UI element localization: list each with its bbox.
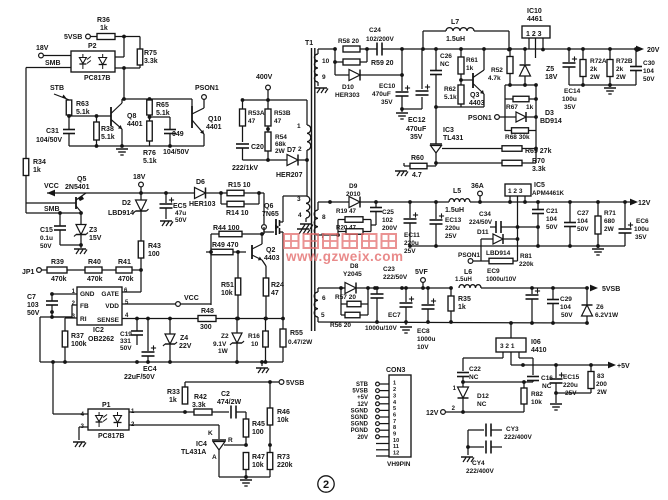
svg-text:R76: R76: [143, 150, 156, 157]
svg-text:4401: 4401: [206, 124, 222, 131]
svg-text:5VSB: 5VSB: [602, 286, 620, 293]
svg-text:R53A: R53A: [248, 110, 265, 117]
svg-text:10k: 10k: [277, 417, 289, 424]
svg-text:104/50V: 104/50V: [36, 137, 62, 144]
svg-text:EC7: EC7: [388, 312, 401, 319]
svg-text:NC: NC: [469, 374, 479, 381]
svg-text:D3: D3: [545, 110, 554, 117]
svg-text:R41: R41: [118, 259, 131, 266]
svg-text:200: 200: [596, 381, 607, 388]
svg-text:Z2: Z2: [221, 333, 229, 340]
svg-text:CON3: CON3: [386, 367, 406, 374]
svg-text:100: 100: [148, 251, 160, 258]
svg-text:NC: NC: [477, 401, 487, 408]
svg-text:0.47/2W: 0.47/2W: [288, 339, 313, 346]
svg-text:D6: D6: [196, 179, 205, 186]
svg-text:D11: D11: [477, 229, 489, 236]
svg-text:2: 2: [393, 387, 396, 393]
svg-text:C27: C27: [577, 210, 589, 217]
svg-text:SGND: SGND: [351, 422, 369, 428]
svg-text:224/50V: 224/50V: [469, 219, 493, 226]
svg-text:3.3k: 3.3k: [144, 58, 158, 65]
svg-text:NC: NC: [542, 383, 552, 390]
svg-text:D12: D12: [477, 393, 489, 400]
svg-text:L5: L5: [453, 188, 461, 195]
svg-text:104: 104: [560, 304, 571, 311]
svg-text:15V: 15V: [89, 235, 102, 242]
svg-text:C34: C34: [479, 211, 491, 218]
svg-text:2N5401: 2N5401: [65, 184, 90, 191]
svg-text:470uF: 470uF: [372, 91, 391, 98]
svg-text:8: 8: [393, 425, 396, 431]
svg-text:EC13: EC13: [445, 217, 462, 224]
svg-text:4401: 4401: [127, 121, 143, 128]
svg-text:EC4: EC4: [143, 366, 157, 373]
svg-text:SGND: SGND: [351, 415, 369, 421]
svg-text:GND: GND: [80, 291, 95, 298]
svg-text:R48: R48: [201, 308, 214, 315]
svg-text:R43: R43: [148, 243, 161, 250]
svg-text:R38: R38: [101, 126, 114, 133]
svg-text:+5V: +5V: [357, 395, 368, 401]
svg-text:R36: R36: [97, 17, 110, 24]
svg-text:EC15: EC15: [563, 374, 580, 381]
svg-text:I06: I06: [531, 339, 541, 346]
svg-text:20V: 20V: [357, 435, 368, 441]
svg-text:D9: D9: [349, 183, 358, 190]
svg-text:2W: 2W: [275, 148, 286, 155]
svg-text:5.1k: 5.1k: [156, 110, 170, 117]
svg-text:1.5uH: 1.5uH: [445, 207, 464, 214]
svg-text:1.5uH: 1.5uH: [455, 276, 472, 283]
svg-text:Z3: Z3: [89, 227, 97, 234]
svg-text:C20: C20: [251, 144, 264, 151]
svg-text:IC5: IC5: [534, 182, 545, 189]
svg-text:331: 331: [120, 338, 131, 345]
svg-text:222/400V: 222/400V: [504, 434, 532, 441]
svg-text:10k: 10k: [252, 462, 264, 469]
svg-text:SENSE: SENSE: [97, 317, 120, 324]
svg-text:R68 30k: R68 30k: [505, 134, 530, 141]
svg-text:EC10: EC10: [379, 83, 396, 90]
svg-text:TL431: TL431: [443, 135, 463, 142]
svg-text:R71: R71: [604, 210, 616, 217]
svg-text:R54: R54: [275, 134, 287, 141]
svg-text:50V: 50V: [643, 76, 655, 83]
svg-text:C21: C21: [546, 208, 558, 215]
svg-text:R67: R67: [506, 104, 518, 111]
svg-text:5VSB: 5VSB: [352, 389, 368, 395]
svg-text:P2: P2: [88, 43, 97, 50]
svg-text:PGND: PGND: [351, 428, 369, 434]
svg-text:10k: 10k: [531, 399, 542, 406]
svg-text:R24: R24: [271, 282, 284, 289]
svg-text:104: 104: [577, 218, 588, 225]
svg-text:R19 47: R19 47: [336, 208, 357, 215]
svg-text:C23: C23: [383, 266, 395, 273]
svg-text:D10: D10: [342, 84, 354, 91]
svg-text:R52: R52: [491, 67, 503, 74]
svg-text:D2: D2: [122, 200, 131, 207]
svg-text:R53B: R53B: [274, 110, 291, 117]
svg-text:4.7k: 4.7k: [488, 75, 501, 82]
svg-text:Z6: Z6: [596, 304, 604, 311]
svg-text:220u: 220u: [563, 382, 578, 389]
svg-text:18V: 18V: [545, 74, 558, 81]
svg-text:R56 20: R56 20: [330, 322, 351, 329]
svg-text:1W: 1W: [218, 348, 229, 355]
svg-text:HER303: HER303: [335, 92, 360, 99]
svg-text:R14 10: R14 10: [226, 210, 249, 217]
svg-text:C25: C25: [382, 209, 394, 216]
svg-text:6: 6: [393, 412, 396, 418]
svg-text:100k: 100k: [71, 341, 87, 348]
svg-text:1: 1: [393, 381, 396, 387]
svg-text:K: K: [208, 430, 213, 437]
svg-text:R47: R47: [252, 454, 265, 461]
svg-text:OB2262: OB2262: [88, 336, 114, 343]
svg-text:5VSB: 5VSB: [286, 380, 304, 387]
svg-text:35V: 35V: [564, 104, 576, 111]
svg-text:1k: 1k: [526, 104, 534, 111]
svg-text:470k: 470k: [87, 276, 103, 283]
svg-text:300: 300: [200, 324, 212, 331]
svg-text:R72A: R72A: [590, 58, 607, 65]
svg-text:VCC: VCC: [44, 183, 59, 190]
svg-text:2W: 2W: [590, 74, 601, 81]
svg-text:25V: 25V: [445, 233, 457, 240]
svg-text:4461: 4461: [527, 16, 543, 23]
svg-text:4403: 4403: [264, 255, 280, 262]
svg-text:Q6: Q6: [264, 203, 273, 210]
svg-text:103: 103: [27, 302, 39, 309]
svg-text:1k: 1k: [33, 167, 41, 174]
svg-text:104: 104: [546, 216, 557, 223]
svg-text:3: 3: [297, 196, 301, 203]
svg-text:C7: C7: [27, 294, 36, 301]
svg-text:9: 9: [322, 74, 326, 81]
svg-text:VH9PIN: VH9PIN: [387, 461, 411, 468]
svg-text:36A: 36A: [471, 183, 484, 190]
svg-text:EC12: EC12: [408, 117, 426, 124]
svg-text:R46: R46: [277, 409, 290, 416]
svg-text:1k: 1k: [458, 304, 466, 311]
svg-text:222/1kV: 222/1kV: [232, 165, 258, 172]
svg-text:47u: 47u: [175, 210, 186, 217]
svg-text:C29: C29: [560, 296, 572, 303]
svg-text:2W: 2W: [604, 226, 615, 233]
svg-text:R61: R61: [466, 57, 478, 64]
svg-text:1k: 1k: [466, 65, 474, 72]
svg-text:11: 11: [393, 444, 399, 450]
svg-text:4.7: 4.7: [412, 172, 422, 179]
svg-text:Z4: Z4: [180, 335, 188, 342]
svg-text:EC6: EC6: [636, 218, 649, 225]
svg-text:C2: C2: [221, 391, 230, 398]
svg-text:7N65: 7N65: [262, 211, 279, 218]
svg-text:9: 9: [393, 432, 396, 438]
svg-text:680: 680: [604, 218, 615, 225]
svg-text:R45: R45: [252, 421, 265, 428]
svg-text:PSON1: PSON1: [195, 85, 219, 92]
svg-text:Z5: Z5: [546, 66, 554, 73]
svg-text:2W: 2W: [616, 74, 627, 81]
svg-text:R81: R81: [520, 253, 532, 260]
svg-text:35V: 35V: [381, 99, 393, 106]
svg-text:TL431A: TL431A: [181, 449, 206, 456]
svg-text:220k: 220k: [519, 261, 534, 268]
svg-text:1 2 3: 1 2 3: [508, 188, 523, 195]
svg-text:12: 12: [393, 451, 399, 457]
svg-text:STB: STB: [356, 382, 369, 388]
svg-text:6: 6: [322, 295, 326, 302]
svg-text:www.gzweix.com: www.gzweix.com: [285, 249, 404, 264]
svg-text:100: 100: [252, 429, 264, 436]
svg-text:1k: 1k: [169, 397, 177, 404]
svg-text:R63: R63: [76, 101, 89, 108]
svg-text:3.3k: 3.3k: [192, 402, 206, 409]
svg-text:C31: C31: [46, 128, 59, 135]
svg-text:68k: 68k: [275, 141, 286, 148]
svg-text:R39: R39: [51, 259, 64, 266]
svg-text:83: 83: [597, 373, 605, 380]
svg-text:5: 5: [321, 312, 325, 319]
svg-text:L6: L6: [464, 269, 472, 276]
svg-text:5.1k: 5.1k: [444, 94, 457, 101]
svg-text:JP1: JP1: [22, 269, 35, 276]
svg-text:LBD914: LBD914: [108, 210, 134, 217]
svg-text:18V: 18V: [36, 45, 49, 52]
svg-text:12V: 12V: [426, 410, 439, 417]
svg-text:3 2 1: 3 2 1: [500, 343, 515, 350]
svg-text:5.1k: 5.1k: [76, 109, 90, 116]
svg-text:100u: 100u: [562, 96, 577, 103]
svg-text:102/200V: 102/200V: [366, 36, 394, 43]
svg-text:35V: 35V: [410, 134, 423, 141]
svg-text:5VF: 5VF: [415, 269, 429, 276]
svg-text:5.1k: 5.1k: [101, 134, 115, 141]
svg-text:7: 7: [393, 419, 396, 425]
svg-text:R60: R60: [411, 155, 424, 162]
svg-text:HER207: HER207: [276, 172, 303, 179]
svg-text:5: 5: [393, 406, 396, 412]
svg-text:P1: P1: [102, 402, 111, 409]
svg-text:50V: 50V: [120, 345, 132, 352]
svg-text:1: 1: [297, 123, 301, 130]
svg-text:R57 20: R57 20: [335, 294, 356, 301]
svg-text:BD914: BD914: [540, 118, 562, 125]
svg-text:2W: 2W: [597, 389, 608, 396]
svg-text:CY4: CY4: [472, 460, 485, 467]
svg-text:R: R: [228, 437, 233, 444]
svg-text:12V: 12V: [638, 200, 651, 207]
svg-text:VDD: VDD: [105, 303, 119, 310]
svg-text:1000u/10V: 1000u/10V: [486, 276, 517, 283]
svg-text:C30: C30: [643, 60, 655, 67]
svg-text:222/400V: 222/400V: [466, 468, 494, 475]
svg-text:10: 10: [393, 438, 399, 444]
svg-text:5.1k: 5.1k: [143, 158, 157, 165]
svg-text:50V: 50V: [40, 243, 52, 250]
svg-text:C15: C15: [40, 227, 53, 234]
svg-text:R40: R40: [88, 259, 101, 266]
svg-text:474/2W: 474/2W: [217, 399, 242, 406]
svg-text:2: 2: [323, 479, 329, 491]
svg-text:R33: R33: [167, 389, 180, 396]
svg-text:FB: FB: [80, 303, 89, 310]
svg-text:50V: 50V: [27, 310, 40, 317]
svg-text:47: 47: [271, 290, 279, 297]
svg-text:R62: R62: [444, 86, 456, 93]
svg-text:Q3: Q3: [470, 92, 479, 99]
svg-text:R59 20: R59 20: [371, 60, 394, 67]
svg-text:+5V: +5V: [617, 363, 630, 370]
svg-text:NC: NC: [440, 61, 450, 68]
svg-text:2010: 2010: [346, 191, 361, 198]
svg-text:PSON1: PSON1: [468, 115, 492, 122]
svg-text:470k: 470k: [51, 276, 67, 283]
svg-text:Q10: Q10: [208, 116, 221, 123]
svg-text:049: 049: [172, 131, 184, 138]
svg-text:R55: R55: [290, 330, 303, 337]
svg-text:R82: R82: [531, 391, 543, 398]
svg-text:R58 20: R58 20: [338, 38, 359, 45]
svg-text:APM4461K: APM4461K: [532, 190, 565, 197]
svg-text:R73: R73: [277, 454, 290, 461]
svg-text:EC5: EC5: [173, 203, 187, 210]
svg-text:PC817B: PC817B: [98, 433, 124, 440]
svg-text:12V: 12V: [357, 402, 368, 408]
svg-text:GATE: GATE: [101, 291, 119, 298]
svg-text:VCC: VCC: [184, 295, 199, 302]
svg-text:SMB: SMB: [45, 60, 61, 67]
svg-text:SGND: SGND: [351, 408, 369, 414]
svg-text:4403: 4403: [469, 100, 485, 107]
svg-text:CY3: CY3: [506, 426, 519, 433]
svg-text:10: 10: [251, 341, 259, 348]
svg-text:470uF: 470uF: [406, 126, 427, 133]
svg-text:Q5: Q5: [77, 176, 86, 183]
svg-text:EC11: EC11: [404, 232, 420, 239]
svg-text:47: 47: [248, 118, 256, 125]
svg-text:EC14: EC14: [564, 88, 581, 95]
svg-text:10k: 10k: [221, 290, 233, 297]
svg-text:1000u: 1000u: [417, 336, 435, 343]
svg-text:2k: 2k: [590, 66, 598, 73]
svg-text:4410: 4410: [531, 347, 547, 354]
svg-text:STB: STB: [50, 85, 64, 92]
svg-text:R70: R70: [532, 158, 545, 165]
svg-text:4: 4: [298, 212, 302, 219]
svg-text:C24: C24: [369, 27, 381, 34]
svg-text:50V: 50V: [175, 217, 187, 224]
svg-text:R65: R65: [156, 102, 169, 109]
svg-text:9.1V: 9.1V: [213, 341, 227, 348]
svg-text:50V: 50V: [577, 226, 589, 233]
svg-text:200V: 200V: [382, 225, 398, 232]
svg-text:C22: C22: [469, 366, 481, 373]
svg-text:10: 10: [322, 58, 330, 65]
svg-text:Q8: Q8: [127, 113, 136, 120]
svg-text:D7: D7: [287, 147, 296, 154]
svg-text:470k: 470k: [118, 276, 134, 283]
svg-text:10V: 10V: [417, 344, 429, 351]
svg-text:Y2045: Y2045: [343, 271, 362, 278]
svg-text:20V: 20V: [647, 47, 660, 54]
svg-text:C19: C19: [120, 331, 132, 338]
svg-text:1.5uH: 1.5uH: [446, 36, 465, 43]
svg-text:0.1u: 0.1u: [40, 235, 53, 242]
svg-text:R35: R35: [458, 296, 471, 303]
svg-text:35V: 35V: [635, 234, 647, 241]
svg-text:RI: RI: [80, 316, 87, 323]
svg-text:100u: 100u: [634, 226, 649, 233]
svg-text:3: 3: [393, 393, 396, 399]
svg-text:PSON1: PSON1: [458, 252, 480, 259]
svg-text:R72B: R72B: [616, 58, 633, 65]
svg-text:220k: 220k: [277, 462, 293, 469]
svg-text:D8: D8: [350, 263, 359, 270]
svg-text:IC4: IC4: [196, 441, 207, 448]
svg-text:104/50V: 104/50V: [163, 149, 189, 156]
svg-text:22V: 22V: [179, 343, 192, 350]
svg-text:47: 47: [274, 118, 282, 125]
svg-text:8: 8: [322, 214, 326, 221]
svg-text:222/50V: 222/50V: [383, 274, 408, 281]
svg-text:6.2V1W: 6.2V1W: [595, 312, 619, 319]
svg-text:EC9: EC9: [487, 268, 500, 275]
svg-text:50V: 50V: [561, 312, 573, 319]
svg-text:SMB: SMB: [44, 206, 60, 213]
svg-text:25V: 25V: [404, 248, 416, 255]
svg-text:2: 2: [298, 146, 302, 153]
svg-text:IC2: IC2: [93, 327, 104, 334]
svg-text:1k: 1k: [100, 25, 108, 32]
svg-text:R75: R75: [144, 50, 157, 57]
svg-text:220u: 220u: [445, 225, 460, 232]
svg-text:R42: R42: [194, 394, 207, 401]
svg-text:1 2 3: 1 2 3: [526, 31, 542, 38]
svg-text:L7: L7: [451, 19, 459, 26]
svg-text:R15 10: R15 10: [228, 182, 251, 189]
svg-text:R16: R16: [248, 333, 260, 340]
svg-text:R51: R51: [221, 282, 234, 289]
svg-text:EC8: EC8: [417, 328, 430, 335]
svg-text:C26: C26: [440, 53, 452, 60]
svg-text:PC817B: PC817B: [84, 75, 110, 82]
svg-text:18V: 18V: [133, 174, 146, 181]
svg-text:22uF/50V: 22uF/50V: [124, 374, 155, 381]
svg-text:R37: R37: [71, 333, 84, 340]
svg-text:5VSB: 5VSB: [64, 34, 82, 41]
svg-text:3.3k: 3.3k: [532, 166, 546, 173]
svg-text:IC3: IC3: [443, 127, 454, 134]
svg-text:400V: 400V: [256, 74, 273, 81]
svg-text:HER103: HER103: [189, 201, 216, 208]
svg-text:1000u/10V: 1000u/10V: [365, 325, 397, 332]
svg-text:A: A: [212, 454, 217, 461]
svg-text:104: 104: [643, 68, 654, 75]
svg-text:2k: 2k: [616, 66, 624, 73]
svg-text:LBD914: LBD914: [486, 250, 511, 257]
svg-text:R34: R34: [33, 159, 46, 166]
svg-text:IC10: IC10: [527, 8, 542, 15]
svg-text:Q2: Q2: [266, 247, 275, 254]
svg-text:R49 470: R49 470: [212, 242, 239, 249]
svg-text:50V: 50V: [546, 224, 558, 231]
svg-text:102: 102: [382, 217, 393, 224]
svg-text:T1: T1: [305, 40, 313, 47]
